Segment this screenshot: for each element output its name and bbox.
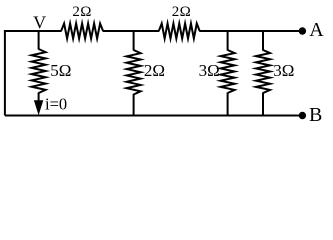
svg-text:2Ω: 2Ω xyxy=(144,61,165,80)
resistor 5-ohm vertical zigzag xyxy=(32,49,46,93)
current arrowhead i=0 pointing down to bottom rail xyxy=(34,100,43,115)
svg-text:i=0: i=0 xyxy=(45,95,67,114)
wire: branch stub from top rail to first 3-ohm resistor xyxy=(227,31,229,51)
svg-text:B: B xyxy=(309,104,322,126)
svg-text:A: A xyxy=(309,19,324,41)
resistor 3-ohm vertical zigzag (first) xyxy=(221,50,235,93)
wire: top rail left segment (corner to R1) xyxy=(5,30,62,32)
node A terminal dot xyxy=(299,27,306,34)
wire: stub from first 3-ohm resistor to bottom rail xyxy=(227,93,229,116)
svg-text:2Ω: 2Ω xyxy=(172,4,191,20)
svg-text:3Ω: 3Ω xyxy=(273,61,294,80)
wire: top rail between R1 and R2 xyxy=(103,30,160,32)
wire: stub from second 3-ohm resistor to bottom rail xyxy=(262,93,264,116)
svg-text:5Ω: 5Ω xyxy=(50,61,71,80)
wire: arrow shaft below 5-ohm resistor xyxy=(38,93,40,103)
node B terminal dot xyxy=(299,112,306,119)
svg-text:V: V xyxy=(33,12,46,32)
wire: left vertical side xyxy=(4,30,6,116)
resistor 3-ohm vertical zigzag (second) xyxy=(256,50,270,93)
wire: branch stub from top rail to second 3-ohm resistor xyxy=(262,31,264,51)
wire: branch stub from top rail to 5-ohm resistor xyxy=(38,31,40,50)
wire: branch stub from top rail to middle 2-ohm resistor xyxy=(133,31,135,51)
wire: top rail from R2 to node A xyxy=(199,30,302,32)
wire: stub from middle 2-ohm resistor to bottom rail xyxy=(133,94,135,116)
resistor R-top-1 2ohm horizontal zigzag xyxy=(61,24,103,39)
resistor 2-ohm vertical zigzag (middle) xyxy=(127,50,141,95)
svg-text:3Ω: 3Ω xyxy=(199,61,220,80)
resistor R-top-2 2ohm horizontal zigzag xyxy=(159,24,200,39)
svg-text:2Ω: 2Ω xyxy=(72,4,91,20)
wire: bottom rail xyxy=(5,115,303,117)
